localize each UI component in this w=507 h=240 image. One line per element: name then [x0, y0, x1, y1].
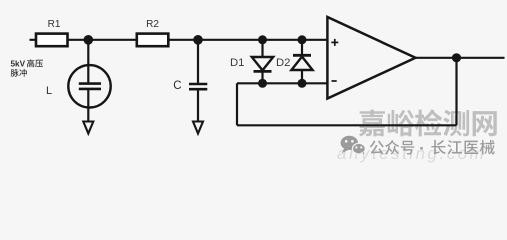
diode D1	[252, 40, 273, 84]
svg-text:D2: D2	[276, 57, 290, 69]
wire: source branch vertical	[87, 40, 89, 66]
svg-text:5kV: 5kV	[11, 60, 26, 69]
label changjiang yixie	[431, 140, 494, 155]
node: D1 top junction	[258, 35, 267, 44]
svg-text:R1: R1	[48, 19, 61, 30]
node: junction at source branch	[84, 35, 94, 45]
node: output junction	[452, 53, 461, 62]
svg-text:D1: D1	[230, 57, 244, 69]
wire: C branch vertical	[197, 40, 199, 84]
source L (pulse generator)	[68, 65, 110, 107]
wire: feedback bottom horizontal	[237, 124, 457, 126]
node: D2 top junction	[298, 35, 307, 44]
resistor R2	[137, 19, 169, 46]
svg-text:L: L	[46, 85, 52, 97]
label 5kV high-voltage pulse	[11, 60, 26, 69]
ground (arrow) under source	[83, 122, 93, 134]
wire: feedback left vertical	[236, 83, 238, 125]
svg-text:R2: R2	[146, 19, 159, 30]
wire: source bottom lead	[87, 107, 89, 122]
watermark: jiayu testing net	[359, 109, 497, 136]
ground (arrow) under C	[193, 122, 203, 134]
node: junction at C branch	[193, 35, 203, 45]
wire: feedback right vertical	[455, 58, 457, 126]
wire: main top rail	[30, 39, 328, 41]
op-amp U1	[327, 17, 415, 99]
capacitor C	[189, 84, 207, 89]
svg-text:C: C	[173, 80, 181, 92]
node: D1 bottom junction	[258, 79, 267, 88]
wire: bottom rail (inverting input)	[237, 82, 328, 84]
wire: output	[416, 57, 505, 59]
wire: C bottom lead	[197, 89, 199, 122]
diode D2	[291, 40, 312, 84]
label gongzhonghao	[370, 140, 415, 154]
resistor R1	[36, 19, 68, 46]
icon: wechat bubbles	[341, 136, 366, 156]
node: D2 bottom junction	[298, 79, 307, 88]
separator dot	[420, 147, 423, 150]
